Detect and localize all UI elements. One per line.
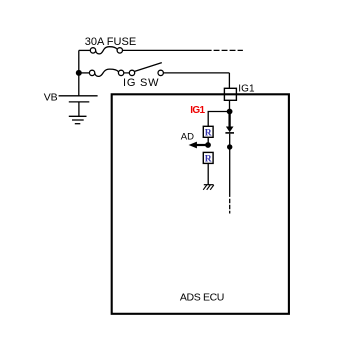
- wire junction to R1: [208, 112, 229, 127]
- ground earth bar 2: [72, 119, 84, 121]
- battery VB top plate: [59, 95, 98, 97]
- switch SW contact circle 3: [129, 70, 134, 75]
- wire connector to junction: [229, 100, 231, 111]
- switch wavy link: [95, 69, 118, 76]
- switch SW terminal circle 2: [118, 70, 123, 75]
- wire junction to diode (thick): [228, 112, 230, 128]
- wire diode down: [229, 134, 231, 197]
- chassis ground hatch 3: [210, 185, 214, 190]
- wire fuse row left segment: [79, 49, 90, 51]
- node dot below diode: [227, 144, 232, 149]
- ground earth bar 1: [69, 115, 87, 117]
- wire switch output to right: [163, 72, 229, 74]
- wire R1 to node: [207, 137, 209, 145]
- fuse F1 terminal circle left: [90, 48, 95, 53]
- svg-text:IG SW: IG SW: [123, 77, 159, 89]
- wire left vertical from fuse corner to battery: [78, 50, 80, 95]
- wire switch row left segment: [79, 72, 90, 74]
- resistor R2 box: [203, 152, 213, 163]
- switch SW terminal circle 1: [89, 70, 94, 75]
- chassis ground baseline: [204, 184, 214, 186]
- wire battery stem: [78, 102, 80, 116]
- connector IG1 box: [224, 88, 236, 100]
- svg-text:IG1: IG1: [190, 105, 205, 116]
- chassis ground hatch 1: [203, 185, 207, 190]
- switch blade: [135, 63, 162, 72]
- svg-text:ADS ECU: ADS ECU: [180, 291, 225, 303]
- arrow AD shaft: [195, 144, 209, 146]
- diode D1 cathode bar: [225, 132, 234, 134]
- arrow AD head: [189, 142, 197, 149]
- resistor R1 box: [203, 126, 213, 137]
- svg-text:R: R: [205, 155, 212, 165]
- svg-text:IG1: IG1: [238, 84, 255, 95]
- wire dashed continuation top right: [214, 49, 243, 51]
- chassis ground hatch 2: [207, 185, 211, 190]
- wire down to connector IG1: [228, 73, 230, 88]
- junction dot on left vertical: [76, 70, 82, 76]
- node IG1 junction dot: [227, 109, 233, 115]
- diode D1 triangle: [226, 127, 234, 133]
- switch SW contact circle 4: [158, 70, 163, 75]
- svg-text:VB: VB: [44, 92, 58, 104]
- wire dashed continuation down: [229, 199, 231, 214]
- wire link between switch circles: [124, 72, 130, 74]
- fuse F1 element wavy link: [96, 47, 117, 54]
- battery VB bottom plate: [69, 101, 90, 103]
- ECU box outline: [112, 94, 289, 313]
- node AD junction dot: [205, 142, 211, 148]
- svg-text:AD: AD: [181, 132, 194, 143]
- fuse F1 terminal circle right: [117, 48, 122, 53]
- svg-text:R: R: [205, 129, 212, 139]
- ground earth bar 3: [75, 123, 81, 125]
- wire R2 to ground: [207, 163, 209, 184]
- wire fuse output to right: [123, 49, 212, 51]
